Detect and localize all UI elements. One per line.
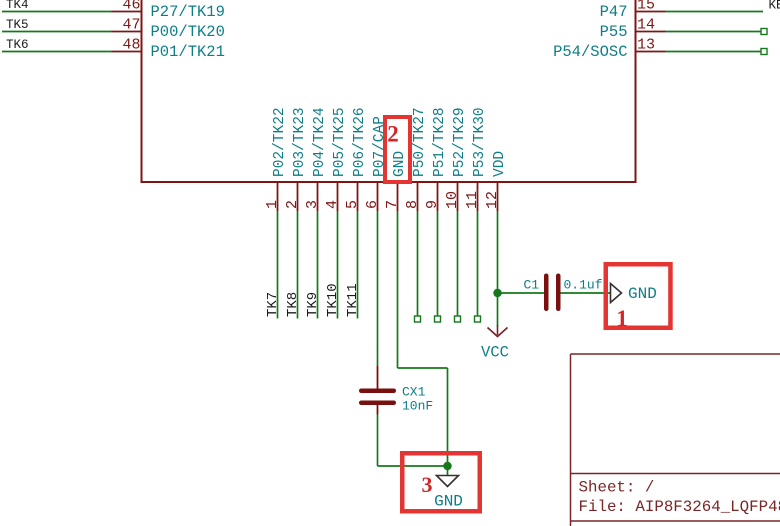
svg-text:11: 11	[464, 191, 481, 209]
title block bottom line	[571, 520, 780, 522]
svg-text:P50/TK27: P50/TK27	[412, 107, 428, 177]
svg-text:P03/TK23: P03/TK23	[292, 107, 308, 177]
ground symbol 3 triangle	[437, 476, 459, 487]
svg-text:15: 15	[637, 0, 655, 14]
wire VDD to VCC symbol	[497, 293, 499, 326]
svg-text:TK8: TK8	[285, 292, 301, 317]
svg-text:P05/TK25: P05/TK25	[332, 107, 348, 177]
wire junction to GND symbol	[447, 466, 449, 476]
svg-text:TK5: TK5	[6, 18, 29, 32]
svg-text:P54/SOSC: P54/SOSC	[553, 43, 627, 61]
no-connect square pin14	[761, 29, 767, 35]
capacitor C1 plate left	[544, 274, 549, 312]
svg-text:TK4: TK4	[6, 0, 29, 12]
bottom pin stubs 1-12	[278, 182, 498, 211]
svg-text:P47: P47	[600, 3, 628, 21]
wire net TK7	[277, 211, 279, 319]
svg-text:VDD: VDD	[492, 151, 508, 177]
svg-text:8: 8	[404, 200, 421, 209]
svg-text:TK9: TK9	[305, 292, 321, 317]
wire pin9	[437, 211, 439, 316]
wire net TK10	[337, 211, 339, 319]
svg-text:2: 2	[387, 122, 399, 147]
title block divider line	[571, 473, 780, 475]
svg-text:CX1: CX1	[402, 385, 426, 400]
wire net KEY	[666, 11, 764, 13]
capacitor CX1 plate bottom	[359, 401, 396, 406]
svg-text:10nF: 10nF	[402, 399, 433, 414]
wire pin11	[477, 211, 479, 316]
no-connect square pin9	[435, 316, 441, 322]
svg-text:12: 12	[484, 191, 501, 209]
wire net TK4	[2, 11, 112, 13]
svg-text:9: 9	[424, 200, 441, 209]
capacitor CX1 bottom lead	[377, 405, 379, 415]
svg-text:0.1uf: 0.1uf	[564, 278, 603, 293]
capacitor CX1 top lead	[377, 366, 379, 389]
svg-text:GND: GND	[628, 285, 657, 303]
title block frame left line	[570, 354, 572, 526]
wire pin14	[666, 31, 762, 33]
svg-text:4: 4	[324, 200, 341, 209]
svg-text:TK6: TK6	[6, 38, 29, 52]
svg-text:P52/TK29: P52/TK29	[452, 107, 468, 177]
svg-text:C1: C1	[524, 278, 540, 293]
junction VDD node	[493, 289, 501, 297]
pin 48 stub	[112, 51, 142, 53]
svg-text:KEY: KEY	[769, 0, 780, 13]
no-connect square pin8	[415, 316, 421, 322]
svg-text:3: 3	[422, 472, 433, 497]
wire C1 to GND symbol	[561, 292, 611, 294]
svg-text:P04/TK24: P04/TK24	[312, 107, 328, 177]
wire net TK8	[297, 211, 299, 319]
wire pin7 GND down	[397, 211, 399, 368]
wire CX1 down	[377, 415, 379, 467]
svg-text:P01/TK21: P01/TK21	[151, 43, 225, 61]
power symbol VCC arrow	[488, 328, 508, 337]
svg-text:2: 2	[284, 200, 301, 209]
no-connect square pin10	[455, 316, 461, 322]
svg-text:P51/TK28: P51/TK28	[432, 107, 448, 177]
svg-text:6: 6	[364, 200, 381, 209]
wire pin8	[417, 211, 419, 316]
wire net TK9	[317, 211, 319, 319]
bottom pin names	[272, 107, 508, 177]
svg-text:GND: GND	[434, 493, 463, 511]
wire net TK6	[2, 51, 112, 53]
annotation box 1	[606, 264, 671, 328]
svg-text:P00/TK20: P00/TK20	[151, 23, 225, 41]
svg-text:1: 1	[616, 306, 628, 331]
pin 15 stub	[636, 11, 666, 13]
svg-text:P06/TK26: P06/TK26	[352, 107, 368, 177]
capacitor C1 plate right	[556, 274, 561, 312]
annotation box 2	[385, 117, 410, 182]
svg-text:10: 10	[444, 191, 461, 209]
svg-text:VCC: VCC	[481, 344, 509, 362]
svg-text:48: 48	[122, 37, 140, 54]
svg-text:P02/TK22: P02/TK22	[272, 107, 288, 177]
svg-text:Sheet: /: Sheet: /	[579, 479, 655, 497]
svg-text:5: 5	[344, 200, 361, 209]
pin 13 stub	[636, 51, 666, 53]
no-connect square pin11	[475, 316, 481, 322]
svg-text:TK11: TK11	[345, 283, 361, 317]
svg-text:TK7: TK7	[265, 292, 281, 317]
wire VDD to C1	[498, 292, 545, 294]
svg-text:File: AIP8F3264_LQFP48: File: AIP8F3264_LQFP48	[579, 498, 780, 516]
junction bottom GND node	[443, 462, 451, 470]
op-amp U1 IC body AIP8F3264_LQFP48	[142, 0, 636, 182]
ground symbol 1 triangle	[611, 284, 622, 303]
svg-text:TK10: TK10	[325, 283, 341, 317]
svg-text:P55: P55	[600, 23, 628, 41]
annotation box 3	[402, 453, 480, 511]
svg-text:1: 1	[264, 200, 281, 209]
wire pin7 GND jog right	[398, 367, 448, 369]
pin 14 stub	[636, 31, 666, 33]
pin 47 stub	[112, 31, 142, 33]
wire pin6 CAP to CX1	[377, 211, 379, 366]
wire pin12 VDD down	[497, 211, 499, 293]
svg-text:46: 46	[122, 0, 140, 14]
svg-text:P53/TK30: P53/TK30	[472, 107, 488, 177]
svg-text:14: 14	[637, 17, 655, 34]
title block frame top line	[571, 353, 780, 355]
power symbol VCC stem	[497, 325, 499, 335]
bottom pin numbers 1-12	[264, 191, 501, 209]
svg-text:3: 3	[304, 200, 321, 209]
svg-text:13: 13	[637, 37, 655, 54]
pin 46 stub	[112, 11, 142, 13]
svg-text:47: 47	[122, 17, 140, 34]
wire net TK11	[357, 211, 359, 319]
no-connect square pin13	[761, 49, 767, 55]
wire pin7 GND down to junction	[447, 368, 449, 466]
wire pin13	[666, 51, 762, 53]
capacitor CX1 plate top	[359, 389, 396, 394]
wire CX1 to gnd junction	[378, 465, 448, 467]
wire pin10	[457, 211, 459, 316]
wire net TK5	[2, 31, 112, 33]
svg-text:GND: GND	[392, 151, 408, 177]
svg-text:7: 7	[384, 200, 401, 209]
svg-text:P27/TK19: P27/TK19	[151, 3, 225, 21]
